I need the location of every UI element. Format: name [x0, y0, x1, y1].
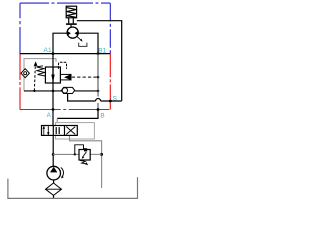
node B port — [97, 108, 100, 111]
wire A line down — [52, 54, 54, 126]
node pump-relief junction — [52, 153, 55, 156]
directional valve gray body — [56, 123, 95, 139]
pump triangle — [50, 167, 57, 173]
wire motor right to B1 — [78, 33, 98, 53]
node gallery junctions — [33, 90, 35, 92]
hydraulic motor M1 — [67, 27, 78, 38]
test point diamond — [21, 69, 29, 78]
CB1 pilot bracket — [59, 62, 67, 69]
wire motor left to A1 — [53, 33, 67, 53]
motor triangle right — [75, 31, 78, 35]
wire pump suction — [53, 180, 55, 183]
CB1 spring — [36, 66, 45, 76]
wire P riser DCV to pump — [52, 136, 54, 167]
RV1 spring — [80, 160, 87, 164]
check valve poppet — [64, 74, 72, 80]
wire T return gray — [70, 136, 102, 188]
RV1 internal arrow — [83, 152, 87, 157]
filter F1 — [46, 183, 62, 195]
svg-text:S: S — [113, 95, 117, 102]
CB1 flow arrow inside — [52, 67, 54, 83]
pump rotation arrow — [61, 168, 64, 177]
counterbalance valve CB1 envelope — [45, 67, 60, 83]
wire S line from orifice — [68, 94, 96, 101]
pump P1 — [47, 166, 61, 180]
wire lower gallery line — [24, 90, 62, 92]
CB1 adjust arrow w/ pilot dash — [33, 66, 36, 91]
relief valve RV1 pilot loop — [75, 145, 84, 155]
wire filter to tank — [53, 195, 55, 198]
directional valve DCV 4/3 — [42, 126, 78, 136]
node S port — [109, 100, 112, 103]
RV1 corner block — [84, 148, 87, 151]
check valve rails — [60, 73, 71, 75]
wire B line down — [97, 54, 99, 97]
tank reservoir — [8, 177, 138, 198]
wire B jog to valve — [57, 110, 98, 119]
wire brake pilot from S (right top) — [77, 21, 122, 101]
manifold gray box (counterbalance block) — [24, 59, 56, 91]
DCV left cell arrows — [43, 126, 45, 135]
pilot line dashed to B — [72, 76, 98, 78]
motor triangle left — [68, 31, 71, 35]
orifice oval with circle — [61, 87, 74, 93]
node B1 — [97, 52, 100, 55]
node relief-T junction — [100, 153, 103, 156]
node A port — [52, 108, 55, 111]
brake support T — [66, 18, 77, 28]
motor case drain arrow — [77, 36, 82, 40]
subsystem boundary red dashed box (valve group) — [20, 54, 110, 110]
svg-text:B: B — [100, 113, 104, 120]
wire relief supply line gray — [53, 153, 79, 155]
svg-text:A: A — [47, 112, 52, 119]
wire A1-B1 port line — [20, 53, 110, 55]
relief valve RV1 envelope — [79, 150, 90, 161]
DCV center cell closed T — [55, 127, 57, 134]
subsystem boundary blue dash-dot box (motor group) — [20, 3, 110, 54]
DCV right cell cross — [66, 127, 75, 135]
node A1 — [52, 52, 55, 55]
wire hop over B line — [96, 99, 101, 102]
svg-text:A1: A1 — [44, 47, 52, 54]
svg-text:B1: B1 — [98, 48, 106, 55]
drain U mark — [79, 43, 87, 47]
spring box (brake spring) — [66, 6, 76, 18]
